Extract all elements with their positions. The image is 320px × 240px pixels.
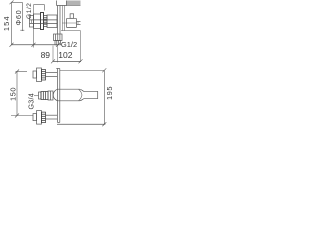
wall sleeve tube bbox=[47, 15, 57, 28]
dimension line 102 bbox=[51, 59, 83, 63]
mixer body column (front view) bbox=[56, 69, 60, 123]
outlet nut block bbox=[54, 34, 63, 41]
union valve block with stem bbox=[67, 14, 77, 28]
dimension line 154 (side view, vertical) bbox=[10, 1, 14, 47]
svg-text:G1/2: G1/2 bbox=[26, 3, 33, 19]
extension lines for 102 bbox=[53, 31, 81, 63]
leader line for G1/2 label (stepped) bbox=[34, 5, 45, 11]
upper inlet pipe lines bbox=[46, 73, 58, 77]
wall face line bbox=[57, 5, 81, 7]
svg-text:195: 195 bbox=[105, 86, 114, 100]
spout outline bbox=[53, 89, 98, 101]
threaded connector hatch bbox=[44, 16, 48, 27]
extension line, top of 154 bbox=[12, 1, 23, 3]
body pipe lines through handle bbox=[30, 20, 58, 24]
dimension line phi60 (escutcheon diameter) bbox=[20, 2, 24, 31]
dimension line 89 / bottom extension of 154 bbox=[12, 43, 61, 47]
dimension line 150 (front view, inlet spacing) bbox=[11, 70, 33, 118]
svg-text:154: 154 bbox=[2, 15, 11, 31]
svg-text:150: 150 bbox=[9, 87, 18, 101]
handle end cap (side view) bbox=[30, 16, 34, 28]
svg-text:102: 102 bbox=[58, 50, 72, 60]
svg-text:G3/4: G3/4 bbox=[27, 93, 36, 109]
svg-text:G1/2: G1/2 bbox=[61, 40, 77, 49]
leader line for G3/4 label bbox=[34, 95, 39, 97]
lower inlet pipe lines bbox=[46, 115, 58, 119]
inner vertical pipe pair bbox=[62, 6, 64, 31]
union pipe stub bbox=[77, 22, 81, 25]
wall section gray bar bbox=[67, 1, 81, 6]
escutcheon flange phi60 bbox=[41, 13, 44, 30]
outlet threaded tip G1/2 bbox=[55, 41, 61, 45]
lower wall edge line bbox=[61, 30, 81, 32]
union centerline bbox=[63, 22, 80, 24]
svg-text:Φ60: Φ60 bbox=[16, 9, 23, 25]
G3/4 threaded connection assembly bbox=[39, 91, 54, 100]
lower inlet union fitting bbox=[33, 111, 46, 125]
svg-text:89: 89 bbox=[41, 50, 51, 60]
vertical body pipe from wall to outlet bbox=[58, 6, 61, 35]
wall hole edges bbox=[57, 1, 67, 6]
upper inlet union fitting bbox=[33, 68, 46, 82]
handle body (side view) bbox=[34, 14, 41, 29]
extension line for 89 at handle seam bbox=[33, 5, 35, 48]
dimension line 195 bbox=[57, 68, 106, 126]
spout taper transition curve bbox=[79, 89, 83, 101]
